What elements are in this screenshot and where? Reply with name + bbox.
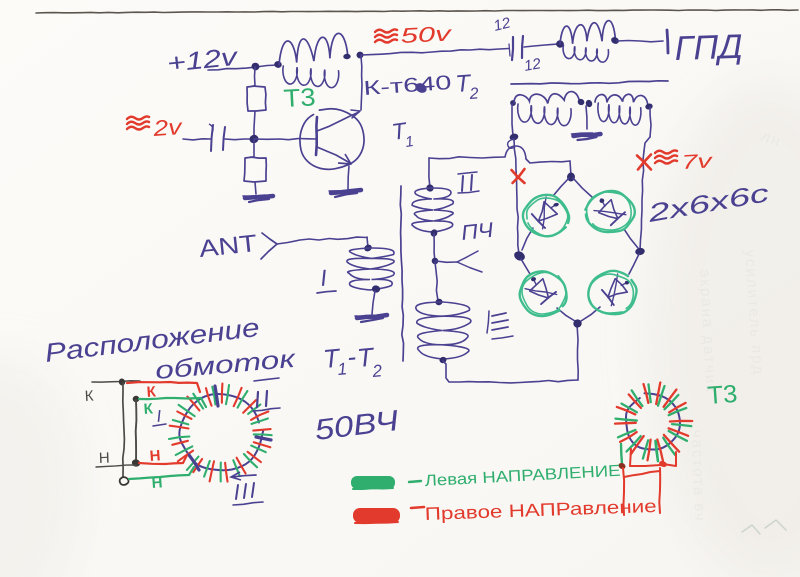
legend green bar: [351, 476, 395, 489]
capacitor C2: [509, 36, 523, 60]
wire coil I to ground: [372, 291, 375, 314]
label PCh: [460, 219, 495, 245]
red wire H: [139, 455, 187, 464]
wire collector: [361, 56, 362, 110]
toroid TR1 blue tick bottomleft: [189, 455, 199, 470]
wire C1 to base node: [225, 138, 253, 141]
green wire TR2 right: [656, 442, 658, 461]
svg-text:частота вч: частота вч: [688, 430, 708, 523]
wire right vertex to D4: [629, 254, 639, 274]
diode D4: [602, 274, 629, 306]
node bridge bottom: [573, 319, 583, 328]
pencil node K2: [132, 395, 140, 402]
wire D1 to left vertex: [522, 228, 533, 250]
label K red: [146, 383, 157, 401]
node +12v junction: [250, 62, 260, 72]
pencil node K: [118, 378, 126, 387]
wire left bridge feed upper: [512, 104, 513, 136]
ground R2: [243, 195, 273, 202]
red wire K: [127, 382, 200, 392]
label K black: [84, 388, 94, 405]
node L2 right: [610, 36, 620, 45]
transistor Q1 T1 circle: [300, 109, 364, 170]
svg-text:2v: 2v: [151, 114, 184, 141]
wire center tap: [586, 106, 587, 129]
pencil loop bottom: [120, 477, 129, 485]
wire +12v rail: [208, 65, 279, 70]
inductor L3 winding: [514, 92, 579, 126]
label ANT: [198, 230, 259, 263]
red node TR2 left: [617, 462, 626, 470]
node L3 right / center tap: [577, 98, 594, 108]
green circle D1: [523, 195, 569, 236]
node L4 right: [645, 103, 654, 111]
label 2x6x6s: [645, 179, 772, 228]
resistor R1: [247, 86, 266, 111]
wire base: [254, 139, 316, 140]
node L3 left: [509, 99, 517, 107]
red wire TR2 cross: [624, 471, 660, 477]
inductor L1 T3 winding: [279, 33, 348, 87]
node L2 left: [555, 40, 564, 49]
ground Q1 emitter: [329, 190, 361, 197]
label obmotok: [154, 345, 297, 385]
green circle D3: [520, 271, 567, 316]
node bridge right: [635, 247, 646, 256]
label GPD: [674, 28, 743, 68]
pencil line K top: [92, 381, 140, 382]
red label approx 2v: [127, 114, 185, 141]
svg-text:7v: 7v: [681, 150, 714, 174]
node coil-left junction: [274, 60, 283, 68]
wire D3 to bottom: [557, 308, 575, 321]
wire into coil I: [367, 237, 368, 248]
wire C2 to L2: [524, 44, 558, 47]
wire fork to coil III: [435, 262, 438, 301]
svg-text:2: 2: [468, 85, 479, 103]
green label T3 right: [706, 380, 738, 410]
label Raspolozhenie: [43, 312, 261, 368]
legend green dash: [409, 481, 421, 482]
svg-text:ПЧ: ПЧ: [460, 219, 495, 245]
node PCh tap: [431, 257, 440, 266]
inductor L4 winding: [595, 94, 648, 125]
green circle D4: [588, 271, 636, 314]
wire left bridge feed lower: [514, 139, 519, 254]
diode D2: [594, 198, 626, 225]
label 12 lower: [523, 55, 543, 75]
wire right bridge feed lower: [640, 151, 644, 250]
wire D2 to right vertex: [624, 229, 638, 248]
label III toroid: [233, 483, 263, 505]
svg-text:Н: Н: [151, 474, 163, 492]
green wire TR2 left: [621, 444, 622, 464]
wire right feed jog: [644, 137, 650, 151]
wire left vertex to D3: [521, 259, 530, 274]
label K green: [143, 400, 154, 418]
wire bottom return: [443, 361, 578, 383]
wire L2 to GPD: [617, 41, 663, 42]
svg-text:Н: Н: [149, 447, 161, 465]
wire emitter lead: [348, 166, 349, 189]
wire R1 top lead: [254, 67, 257, 86]
red wire TR2 staple: [630, 449, 676, 466]
red wire TR2 drop right: [658, 468, 661, 513]
toroid TR2 core: [626, 393, 680, 449]
faint corner marks: [742, 520, 786, 534]
arrow toroid III: [231, 472, 256, 480]
green label T3: [283, 83, 316, 113]
transistor Q1 emitter stroke: [317, 147, 351, 164]
toroid TR2 ticks: [615, 383, 692, 462]
node coil III top: [435, 298, 443, 306]
node bridge left: [513, 250, 527, 263]
capacitor C1: [209, 124, 225, 151]
node coil I top: [363, 243, 373, 252]
legend red bar: [353, 508, 400, 523]
legend red dash: [411, 507, 424, 508]
core line T1: [400, 186, 403, 361]
wire right bridge feed upper: [650, 107, 651, 137]
node coil II top: [425, 183, 434, 192]
inductor L-I winding: [347, 248, 394, 290]
label 50VCh: [313, 405, 401, 447]
toroid TR1 core: [179, 394, 263, 470]
wire to C1: [183, 139, 211, 140]
wire R2 top lead: [253, 140, 255, 157]
inductor L-II winding: [412, 188, 453, 232]
green wire K: [139, 398, 206, 407]
label I: [317, 264, 336, 293]
faint bleedthrough text: [688, 128, 784, 523]
wire coil II top: [429, 158, 430, 188]
transistor Q1 base bar: [316, 117, 317, 155]
paper top edge line: [36, 10, 798, 13]
diode D3: [525, 277, 557, 304]
green wire H: [129, 467, 194, 479]
antenna symbol: [261, 233, 277, 259]
red mark x right: [637, 155, 651, 170]
label H green: [151, 474, 163, 492]
legend red text: [424, 496, 657, 524]
node feed blob: [508, 133, 520, 149]
node coil-right end: [343, 51, 364, 59]
label II: [458, 172, 479, 193]
wire top rail to C2: [361, 49, 509, 56]
svg-text:К: К: [84, 388, 94, 405]
ground coil I: [355, 315, 387, 322]
wire PCh fork: [436, 251, 482, 272]
wire D4 to bottom: [581, 307, 600, 321]
pencil vertical left: [123, 383, 125, 477]
wire II-top to bridge: [429, 146, 571, 176]
label II toroid: [253, 378, 280, 411]
wire R2 bottom lead: [255, 182, 256, 194]
toroid TR1 ticks: [169, 384, 272, 482]
pencil node H: [131, 458, 141, 467]
red label approx 50v: [375, 22, 453, 48]
inductor L2 winding: [560, 21, 615, 63]
node coil I bottom: [371, 285, 380, 294]
transistor Q1 collector stroke: [317, 110, 360, 131]
red mark x left: [512, 169, 525, 183]
diode D1: [532, 197, 559, 229]
wire R1 bottom lead: [254, 111, 255, 138]
wire coil II to fork node: [434, 234, 435, 261]
label 12 upper: [492, 14, 513, 35]
label I toroid: [153, 407, 166, 426]
wire bridge top-left arm: [553, 178, 569, 196]
resistor R2: [244, 157, 266, 182]
wire antenna to L-I: [277, 237, 367, 244]
core line T2: [511, 81, 668, 84]
legend green text: [424, 463, 621, 490]
toroid TR1 blue tick right: [256, 437, 271, 440]
svg-text:1: 1: [337, 359, 348, 379]
label H red: [149, 447, 161, 465]
label III: [487, 311, 513, 339]
green circle D2: [585, 191, 634, 232]
inductor L-III winding: [416, 302, 471, 359]
ground center tap: [572, 133, 601, 140]
label T1: [390, 117, 415, 151]
pencil line H: [96, 465, 136, 467]
label H black: [99, 450, 110, 467]
red label approx 7v: [655, 150, 714, 174]
label T1-T2: [322, 341, 383, 381]
pencil vertical right: [135, 400, 138, 462]
svg-text:Н: Н: [99, 450, 110, 467]
red wire TR2 drop left: [623, 468, 624, 515]
svg-text:50v: 50v: [400, 22, 453, 48]
wire bridge bottom riser: [577, 324, 578, 380]
label KT640 T2: [363, 70, 479, 103]
red node TR2 right: [658, 460, 668, 468]
label +12v: [166, 43, 240, 78]
node bridge top: [567, 172, 576, 182]
toroid TR1 blue tick top: [215, 386, 218, 406]
wire bridge top-right arm: [573, 178, 592, 197]
node base junction: [248, 133, 260, 144]
node coil III bottom: [439, 356, 448, 364]
node coil II bottom: [429, 228, 438, 238]
terminal GPD bar: [667, 30, 668, 53]
svg-text:ГПД: ГПД: [674, 28, 743, 68]
svg-text:Т3: Т3: [283, 83, 316, 113]
